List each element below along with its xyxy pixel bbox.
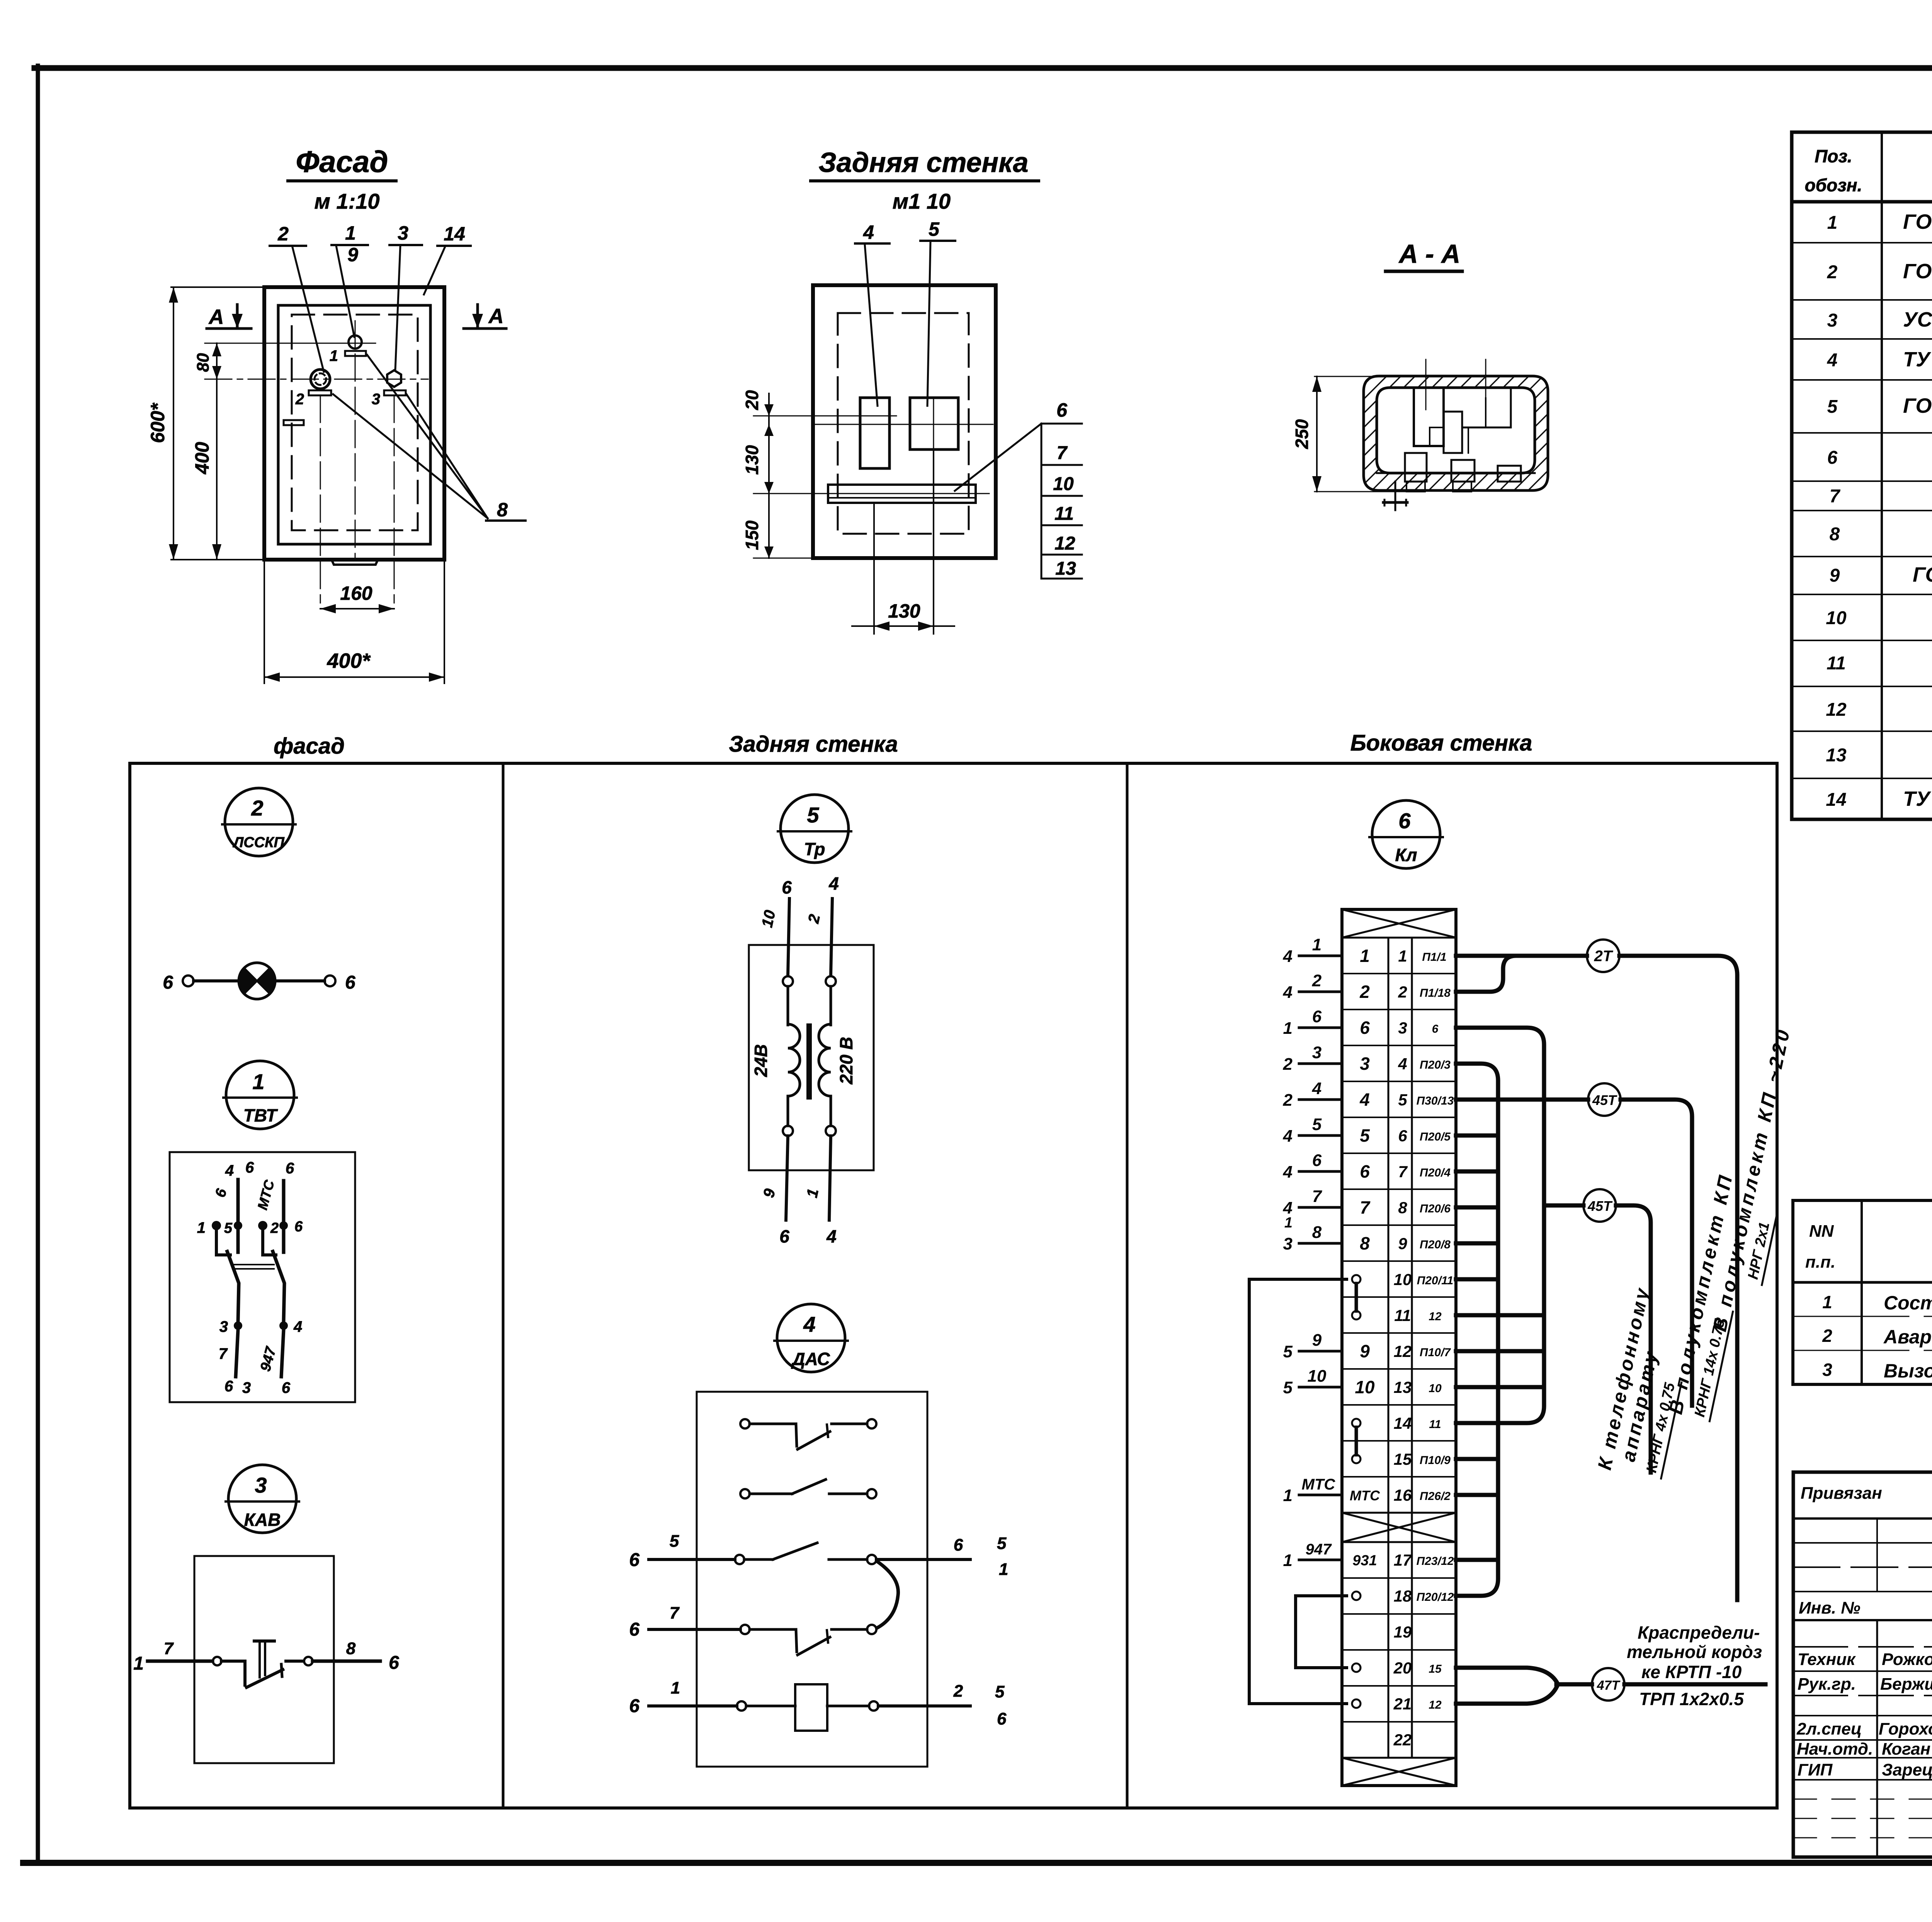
svg-text:45Т: 45Т xyxy=(1592,1092,1617,1108)
svg-text:8: 8 xyxy=(1830,524,1840,545)
svg-text:22: 22 xyxy=(1393,1731,1412,1749)
svg-text:ТРП 1х2х0.5: ТРП 1х2х0.5 xyxy=(1639,1689,1744,1709)
svg-text:2: 2 xyxy=(295,391,304,408)
svg-text:обозн.: обозн. xyxy=(1805,175,1862,195)
svg-text:тельной коро̀з: тельной коро̀з xyxy=(1627,1642,1762,1662)
svg-text:4: 4 xyxy=(826,1226,837,1246)
rotated cable label: в полукомплект КП xyxy=(1665,1171,1761,1421)
svg-text:12: 12 xyxy=(1054,533,1075,554)
svg-text:14: 14 xyxy=(444,223,465,245)
right movable arm xyxy=(273,1251,284,1322)
svg-text:10: 10 xyxy=(1053,474,1074,494)
ДАС coil row 5 xyxy=(629,1679,1007,1731)
header texts xyxy=(1805,146,1932,195)
svg-text:NN: NN xyxy=(1809,1222,1834,1241)
screw with wing xyxy=(1383,482,1407,510)
svg-text:19: 19 xyxy=(1394,1623,1412,1641)
designator circle 4/ДАС xyxy=(774,1304,848,1372)
svg-text:5: 5 xyxy=(807,803,819,827)
svg-text:1: 1 xyxy=(1822,1292,1832,1312)
hatched shell xyxy=(1364,376,1548,490)
block sequence numbers xyxy=(1393,947,1412,1749)
svg-text:3: 3 xyxy=(1398,1019,1407,1037)
centerline vertical item2 xyxy=(320,395,321,603)
svg-text:1: 1 xyxy=(345,222,356,244)
svg-text:5: 5 xyxy=(1312,1115,1322,1134)
transformer right winding wire xyxy=(803,873,838,1246)
svg-text:Кл: Кл xyxy=(1395,845,1417,865)
ladder list 6..13 xyxy=(955,399,1082,579)
svg-text:2: 2 xyxy=(1398,983,1407,1001)
section mark A right xyxy=(464,305,506,329)
svg-text:47Т: 47Т xyxy=(1597,1678,1621,1693)
svg-text:7: 7 xyxy=(1312,1187,1323,1206)
svg-text:7: 7 xyxy=(219,1345,228,1362)
svg-text:УСО. 360. 049. ТУ: УСО. 360. 049. ТУ xyxy=(1903,308,1932,331)
svg-text:1: 1 xyxy=(330,347,338,364)
transformer left winding wire xyxy=(759,877,800,1246)
svg-text:5: 5 xyxy=(929,218,940,240)
svg-text:ТУ 36-716-71: ТУ 36-716-71 xyxy=(1903,787,1932,810)
svg-text:1: 1 xyxy=(671,1679,680,1697)
svg-text:П26/2: П26/2 xyxy=(1420,1490,1451,1503)
mechanical link bar xyxy=(233,1264,274,1265)
svg-text:9: 9 xyxy=(1398,1234,1407,1253)
dashed mounting rect xyxy=(292,315,418,530)
svg-text:6: 6 xyxy=(1312,1007,1322,1026)
svg-text:1: 1 xyxy=(1284,1215,1293,1231)
bar centerline xyxy=(815,493,989,494)
leader 8 lines xyxy=(333,355,526,521)
svg-text:6: 6 xyxy=(389,1653,399,1673)
leader label 14 xyxy=(424,223,471,295)
inner component A xyxy=(1414,388,1444,446)
svg-text:17: 17 xyxy=(1394,1551,1412,1569)
svg-text:6: 6 xyxy=(345,972,355,993)
right terminal 2 with L wire xyxy=(258,1221,267,1230)
left jumper circles and links xyxy=(1352,1275,1361,1708)
svg-text:Коган: Коган xyxy=(1882,1740,1930,1759)
svg-text:7: 7 xyxy=(1057,443,1068,463)
centerline horizontal item1 xyxy=(205,343,376,344)
svg-text:10: 10 xyxy=(1429,1382,1442,1395)
inner component C xyxy=(1462,388,1511,427)
svg-text:10: 10 xyxy=(1308,1367,1327,1386)
svg-text:600*: 600* xyxy=(147,402,168,443)
box outline xyxy=(130,763,1777,1808)
bell button КАВ box xyxy=(133,1556,399,1763)
left lead wires with labels xyxy=(1283,935,1342,1570)
leader label 4 xyxy=(855,221,889,406)
svg-text:4: 4 xyxy=(828,873,839,894)
svg-text:5: 5 xyxy=(670,1532,679,1551)
svg-text:3: 3 xyxy=(398,222,408,244)
relay ДАС box xyxy=(697,1392,927,1767)
door handle tab xyxy=(332,560,378,565)
svg-text:11: 11 xyxy=(1827,653,1846,674)
svg-text:3: 3 xyxy=(242,1379,251,1396)
svg-text:3: 3 xyxy=(219,1318,228,1335)
relay item4 rect xyxy=(860,398,889,468)
svg-text:Рожкова: Рожкова xyxy=(1882,1650,1932,1669)
title Фасад xyxy=(288,145,396,213)
inner small步 details xyxy=(1430,427,1444,446)
svg-text:10: 10 xyxy=(1355,1377,1375,1397)
svg-text:1: 1 xyxy=(133,1653,144,1674)
svg-text:ГОСТ 6940-74*: ГОСТ 6940-74* xyxy=(1913,563,1932,586)
svg-text:2: 2 xyxy=(1359,982,1370,1002)
svg-text:160: 160 xyxy=(340,582,372,604)
leader label 5 xyxy=(920,218,955,406)
left dim chain 20 130 150 xyxy=(742,390,831,558)
svg-text:5: 5 xyxy=(997,1534,1007,1553)
svg-text:Инв. №: Инв. № xyxy=(1799,1599,1861,1617)
svg-text:П10/9: П10/9 xyxy=(1420,1454,1451,1467)
svg-text:6: 6 xyxy=(629,1550,639,1570)
designator circle 6/Кл xyxy=(1369,800,1443,868)
svg-text:6: 6 xyxy=(1398,809,1411,833)
svg-text:Рук.гр.: Рук.гр. xyxy=(1798,1675,1856,1694)
svg-text:3: 3 xyxy=(1360,1054,1370,1074)
pos numbers xyxy=(1826,213,1847,810)
svg-text:2Т: 2Т xyxy=(1594,948,1614,965)
ДАС contact row 1 xyxy=(740,1419,876,1449)
divider 1 xyxy=(502,763,505,1808)
svg-text:П20/5: П20/5 xyxy=(1420,1130,1451,1143)
svg-text:П20/8: П20/8 xyxy=(1420,1238,1451,1251)
svg-text:6: 6 xyxy=(1056,399,1068,421)
svg-text:1: 1 xyxy=(1312,935,1321,954)
svg-text:ТУ 16-523 020-70: ТУ 16-523 020-70 xyxy=(1903,348,1932,371)
svg-text:5: 5 xyxy=(1398,1091,1407,1109)
svg-text:А: А xyxy=(208,305,224,329)
svg-text:П23/12: П23/12 xyxy=(1417,1555,1454,1568)
svg-text:6: 6 xyxy=(282,1379,291,1396)
svg-text:400*: 400* xyxy=(327,649,371,672)
centerline horizontal upper xyxy=(815,415,896,417)
svg-text:7: 7 xyxy=(1360,1197,1371,1217)
svg-text:2: 2 xyxy=(1312,971,1322,990)
svg-text:15: 15 xyxy=(1429,1663,1442,1675)
svg-text:1: 1 xyxy=(197,1219,206,1236)
back wall outer rect xyxy=(813,285,996,558)
svg-text:ГОСТ 16710-76: ГОСТ 16710-76 xyxy=(1903,394,1932,417)
svg-text:5: 5 xyxy=(224,1220,233,1236)
svg-text:6: 6 xyxy=(245,1159,254,1176)
transformer core xyxy=(806,1026,812,1097)
svg-text:400: 400 xyxy=(191,442,213,475)
svg-text:12: 12 xyxy=(1394,1342,1412,1360)
svg-text:12: 12 xyxy=(1826,700,1847,720)
transformer item5 rect xyxy=(910,398,958,449)
svg-text:6: 6 xyxy=(1360,1018,1370,1038)
svg-text:П20/11: П20/11 xyxy=(1417,1274,1453,1287)
left fixed contact line xyxy=(236,1180,240,1252)
svg-text:Техник: Техник xyxy=(1798,1650,1856,1669)
svg-text:130: 130 xyxy=(888,600,920,622)
svg-text:45Т: 45Т xyxy=(1587,1198,1613,1214)
svg-text:11: 11 xyxy=(1054,504,1074,524)
lamp ЛССКП symbol xyxy=(163,963,355,999)
svg-text:6: 6 xyxy=(997,1709,1007,1728)
right fixed contact line xyxy=(282,1181,286,1252)
svg-text:4: 4 xyxy=(225,1162,234,1179)
svg-text:8: 8 xyxy=(1312,1223,1322,1242)
cabinet door rect xyxy=(278,305,430,544)
designator circle 2/ЛССКП xyxy=(222,788,296,856)
svg-text:10: 10 xyxy=(1826,608,1847,628)
svg-text:250: 250 xyxy=(1292,419,1312,449)
dashed rect xyxy=(838,313,969,534)
svg-text:18: 18 xyxy=(1394,1587,1412,1605)
centerline vertical item1 xyxy=(355,321,356,560)
svg-text:Тр: Тр xyxy=(804,839,825,859)
terminal block outline xyxy=(1342,909,1456,1786)
svg-text:8: 8 xyxy=(346,1639,356,1658)
svg-text:А: А xyxy=(488,305,504,328)
svg-text:Фасад: Фасад xyxy=(296,145,388,179)
svg-text:9: 9 xyxy=(1312,1331,1322,1350)
svg-text:ЛССКП: ЛССКП xyxy=(232,834,284,851)
svg-text:6: 6 xyxy=(954,1536,963,1554)
svg-text:10: 10 xyxy=(1394,1270,1412,1289)
wire 47Т from rows 20 21 xyxy=(1456,1668,1558,1684)
svg-text:МТС: МТС xyxy=(1302,1476,1336,1493)
svg-text:9: 9 xyxy=(760,1187,779,1199)
svg-text:2: 2 xyxy=(270,1220,279,1236)
designator circle 3/КАВ xyxy=(226,1465,299,1533)
svg-text:6: 6 xyxy=(224,1378,233,1395)
svg-text:2: 2 xyxy=(251,796,263,820)
svg-text:Состояние КП: Состояние КП xyxy=(1884,1292,1932,1314)
svg-text:1: 1 xyxy=(1827,213,1838,233)
svg-text:Привязан: Привязан xyxy=(1801,1484,1882,1503)
svg-text:6: 6 xyxy=(163,972,173,993)
svg-text:6: 6 xyxy=(1398,1127,1407,1145)
cabinet outer rect xyxy=(264,287,444,560)
svg-text:фасад: фасад xyxy=(274,734,345,759)
svg-text:13: 13 xyxy=(1826,745,1847,766)
block separator X xyxy=(1342,1512,1456,1514)
svg-text:Вызов телефона: Вызов телефона xyxy=(1884,1360,1932,1382)
divider 2 xyxy=(1126,763,1129,1808)
telephone key ТВТ box xyxy=(170,1152,355,1402)
section mark A left xyxy=(207,305,251,329)
svg-text:24В: 24В xyxy=(751,1044,771,1077)
svg-text:9: 9 xyxy=(347,244,358,266)
left lower contact xyxy=(234,1321,242,1330)
svg-text:947: 947 xyxy=(1306,1541,1332,1558)
svg-text:6: 6 xyxy=(782,877,792,897)
wire bus rows 3-11-12-13-14 xyxy=(1456,1028,1544,1423)
bottom dim 130 xyxy=(852,449,954,634)
svg-text:5: 5 xyxy=(1283,1378,1293,1397)
svg-text:5: 5 xyxy=(1827,397,1838,417)
svg-text:1: 1 xyxy=(252,1069,264,1094)
svg-text:ГОСТ 10264-76: ГОСТ 10264-76 xyxy=(1903,210,1932,233)
svg-text:4: 4 xyxy=(1359,1090,1370,1110)
svg-text:6: 6 xyxy=(286,1160,294,1177)
centerline horizontal items 2 3 xyxy=(205,379,428,380)
svg-text:8: 8 xyxy=(497,499,508,521)
ДАС contact row 2 xyxy=(740,1479,876,1498)
svg-text:ке КРТП -10: ке КРТП -10 xyxy=(1641,1662,1742,1682)
left bus wire rows10-21 xyxy=(1249,1279,1347,1704)
svg-text:947: 947 xyxy=(257,1345,279,1373)
svg-text:12: 12 xyxy=(1429,1310,1442,1323)
svg-text:п.п.: п.п. xyxy=(1805,1253,1835,1272)
svg-text:м1 10: м1 10 xyxy=(893,189,951,213)
svg-text:П20/12: П20/12 xyxy=(1417,1591,1454,1604)
svg-text:14: 14 xyxy=(1394,1414,1412,1432)
svg-text:3: 3 xyxy=(1827,310,1838,331)
svg-text:2: 2 xyxy=(805,913,823,925)
svg-text:6: 6 xyxy=(212,1187,230,1199)
svg-text:3: 3 xyxy=(1312,1043,1321,1062)
svg-text:2л.спец: 2л.спец xyxy=(1796,1719,1862,1738)
svg-text:П20/6: П20/6 xyxy=(1420,1202,1451,1215)
svg-text:3: 3 xyxy=(372,391,380,408)
svg-text:5: 5 xyxy=(1360,1125,1370,1146)
designator circle 5/Тр xyxy=(778,795,851,863)
svg-text:П20/4: П20/4 xyxy=(1420,1166,1451,1179)
svg-text:П30/13: П30/13 xyxy=(1417,1095,1454,1107)
block terminal names xyxy=(1350,946,1380,1569)
toggle item3 hexagon xyxy=(372,370,406,408)
svg-text:КАВ: КАВ xyxy=(244,1510,281,1530)
svg-text:1: 1 xyxy=(1283,1551,1293,1570)
svg-text:П1/1: П1/1 xyxy=(1422,951,1446,964)
left terminal 1 with L wire xyxy=(212,1221,221,1230)
dim 80 xyxy=(194,343,221,379)
leader label 2 xyxy=(270,223,324,372)
svg-text:1: 1 xyxy=(1283,1019,1293,1038)
wire 45Т from row5 xyxy=(1456,1098,1588,1102)
transformer box xyxy=(749,945,874,1170)
svg-text:4: 4 xyxy=(803,1312,815,1336)
svg-text:16: 16 xyxy=(1394,1486,1412,1504)
wire bus rows 4..18 xyxy=(1456,1064,1498,1596)
svg-text:11: 11 xyxy=(1394,1306,1411,1324)
svg-text:2: 2 xyxy=(1822,1326,1832,1346)
svg-text:5: 5 xyxy=(1283,1342,1293,1361)
svg-text:Бержштейн: Бержштейн xyxy=(1880,1675,1932,1694)
svg-text:4: 4 xyxy=(863,221,874,243)
svg-text:8: 8 xyxy=(1360,1233,1370,1253)
svg-text:6: 6 xyxy=(294,1219,303,1235)
svg-text:9: 9 xyxy=(1830,565,1840,586)
svg-text:11: 11 xyxy=(1429,1418,1441,1431)
svg-text:20: 20 xyxy=(1393,1659,1412,1677)
svg-text:15: 15 xyxy=(1394,1450,1412,1468)
dim 160 xyxy=(320,582,394,613)
svg-text:Боковая стенка: Боковая стенка xyxy=(1350,730,1532,756)
svg-text:6: 6 xyxy=(1360,1161,1370,1181)
branch to 45Т lower and phone cable xyxy=(1544,1204,1583,1208)
table grid xyxy=(1792,132,1932,819)
dim 400* bottom xyxy=(264,560,444,683)
title Задняя стенка xyxy=(811,147,1039,213)
wire 2Т from row1 xyxy=(1456,954,1587,958)
right lower contact xyxy=(279,1321,288,1330)
left bus wire rows18-20 xyxy=(1296,1596,1347,1668)
svg-text:4: 4 xyxy=(1312,1079,1321,1098)
svg-text:Зарецкий: Зарецкий xyxy=(1882,1760,1932,1779)
svg-text:7: 7 xyxy=(164,1639,174,1658)
svg-text:3: 3 xyxy=(1283,1234,1293,1253)
svg-text:Поз.: Поз. xyxy=(1815,146,1852,166)
dim 250 xyxy=(1292,376,1410,492)
svg-text:2: 2 xyxy=(277,223,289,245)
rotated cable label: к телефонному аппарату xyxy=(1594,1025,1815,1481)
svg-text:4: 4 xyxy=(1283,1127,1293,1146)
svg-text:5: 5 xyxy=(995,1682,1005,1701)
svg-text:6: 6 xyxy=(629,1619,639,1640)
svg-text:12: 12 xyxy=(1429,1699,1442,1711)
label КРТП-10 distribution box xyxy=(1627,1622,1762,1709)
wire row2 joins 2Т xyxy=(1456,956,1516,992)
svg-text:7: 7 xyxy=(1398,1163,1408,1181)
svg-text:4: 4 xyxy=(1283,947,1293,966)
svg-text:21: 21 xyxy=(1393,1695,1412,1713)
terminal bar item6 xyxy=(828,485,976,503)
svg-text:9: 9 xyxy=(1360,1341,1370,1361)
svg-text:ГОСТ 5.1273-72*: ГОСТ 5.1273-72* xyxy=(1903,260,1932,283)
svg-text:6: 6 xyxy=(1827,448,1838,468)
centerline vertical item5 xyxy=(933,398,934,449)
centerline vertical item3 xyxy=(394,395,395,603)
svg-text:80: 80 xyxy=(194,353,213,372)
svg-text:150: 150 xyxy=(742,520,762,550)
svg-text:14: 14 xyxy=(1826,790,1846,810)
svg-text:ТВТ: ТВТ xyxy=(243,1105,278,1125)
svg-text:20: 20 xyxy=(742,390,762,410)
svg-text:2: 2 xyxy=(953,1682,963,1701)
svg-text:Краспредели-: Краспредели- xyxy=(1638,1622,1760,1643)
spare plate xyxy=(284,420,304,425)
centerline horizontal through items xyxy=(815,424,993,425)
svg-text:130: 130 xyxy=(742,445,762,475)
svg-text:Нач.отд.: Нач.отд. xyxy=(1797,1740,1873,1759)
rotated cable label: в полукомплект КП ~220 xyxy=(1709,1025,1815,1338)
svg-text:4: 4 xyxy=(1398,1055,1407,1073)
svg-text:ДАС: ДАС xyxy=(791,1349,830,1369)
lamp item1 circle xyxy=(330,335,366,364)
svg-text:931: 931 xyxy=(1352,1553,1377,1569)
svg-text:4: 4 xyxy=(1283,1163,1293,1181)
svg-text:Гороховский: Гороховский xyxy=(1879,1719,1932,1738)
svg-text:м 1:10: м 1:10 xyxy=(314,189,379,213)
svg-text:7: 7 xyxy=(1830,486,1841,507)
svg-text:МТС: МТС xyxy=(254,1178,277,1212)
left movable arm xyxy=(227,1251,239,1322)
svg-text:6: 6 xyxy=(1432,1023,1439,1035)
title А-А xyxy=(1386,239,1462,271)
svg-text:1: 1 xyxy=(999,1560,1008,1579)
svg-text:МТС: МТС xyxy=(1350,1488,1380,1503)
svg-text:1: 1 xyxy=(1360,946,1370,966)
block wire ids xyxy=(1417,951,1454,1711)
svg-text:8: 8 xyxy=(1398,1198,1407,1217)
bottom rail xyxy=(1377,472,1535,474)
svg-text:3: 3 xyxy=(255,1473,267,1497)
svg-text:Задняя стенка: Задняя стенка xyxy=(729,732,898,757)
designation column xyxy=(1903,210,1932,810)
svg-text:13: 13 xyxy=(1055,558,1076,579)
svg-text:П20/3: П20/3 xyxy=(1420,1059,1451,1071)
ДАС contact row 3 with external leads xyxy=(629,1532,1008,1628)
block row lines xyxy=(1342,974,1456,1722)
